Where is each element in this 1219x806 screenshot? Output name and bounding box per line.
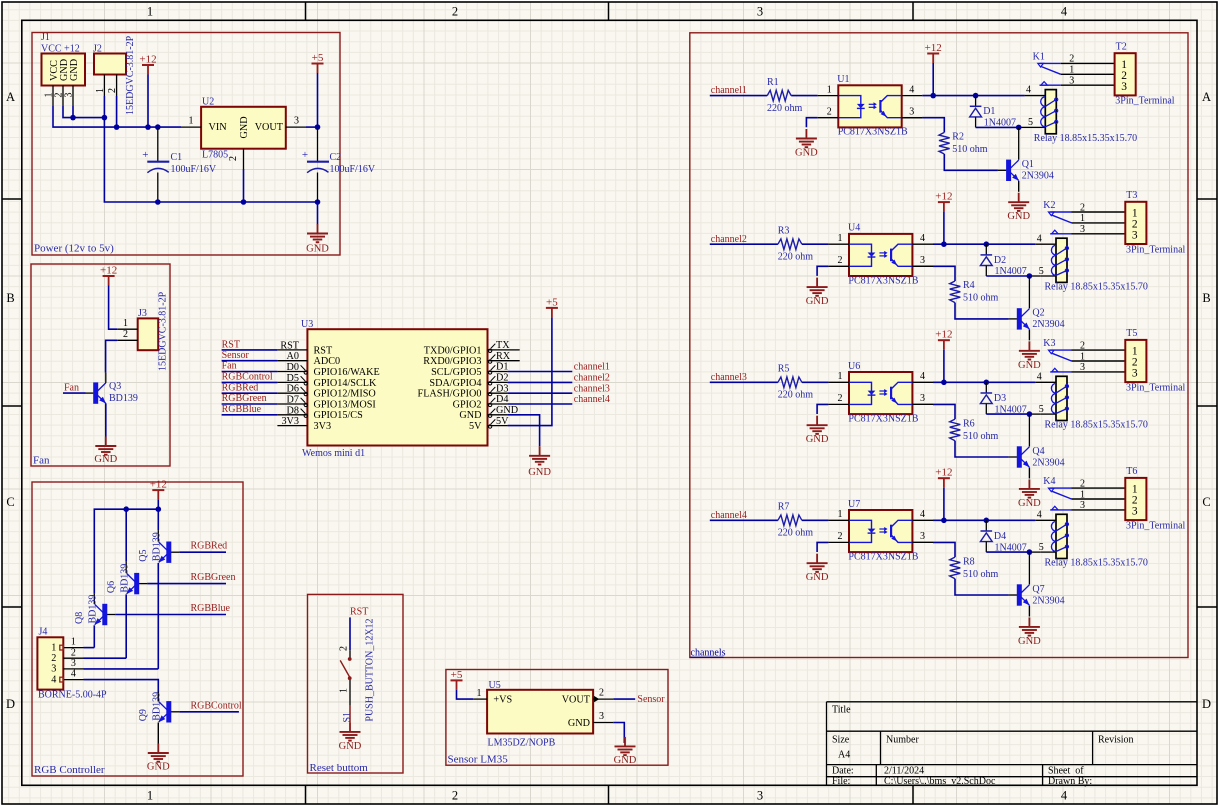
svg-text:R2: R2: [952, 132, 964, 143]
optocoupler U7 PC817X3NSZ1B: [828, 499, 933, 563]
svg-text:D1: D1: [496, 362, 508, 373]
svg-text:Q2: Q2: [1032, 308, 1044, 319]
svg-text:3: 3: [1069, 76, 1074, 87]
svg-text:D6: D6: [287, 384, 299, 395]
relay K1 coil: [1026, 85, 1137, 144]
svg-text:C1: C1: [171, 152, 183, 163]
wire Q3 emitter to ground: [105, 403, 107, 436]
junction +12 node (channel 4): [941, 518, 989, 524]
wire D4 to relay pin5: [986, 551, 1056, 553]
wire J4 pin2: [84, 657, 127, 659]
svg-text:Drawn By:: Drawn By:: [1048, 776, 1092, 787]
svg-text:+12: +12: [100, 265, 117, 277]
ground (fan section): [94, 437, 117, 466]
svg-text:1: 1: [827, 84, 832, 95]
wire +12 stem (channel 2): [943, 212, 945, 245]
transistor Q1 2N3904: [998, 127, 1054, 181]
sheet region: Power (12v to 5v): [32, 33, 340, 256]
wire +12 stem (channel 1): [932, 63, 934, 96]
svg-text:U4: U4: [848, 223, 860, 234]
capacitor C2 100uF/16V: [302, 127, 376, 202]
svg-text:BD139: BD139: [120, 564, 131, 593]
svg-text:S1: S1: [342, 712, 353, 723]
svg-text:A: A: [6, 90, 15, 104]
svg-text:1: 1: [147, 789, 153, 803]
svg-text:SDA/GPIO4: SDA/GPIO4: [429, 378, 481, 389]
junction VOUT node: [315, 124, 321, 130]
wire U6 pin4 to relay K3 coil: [933, 381, 1056, 383]
svg-text:RGBBlue: RGBBlue: [222, 404, 262, 415]
svg-text:4: 4: [1037, 233, 1042, 244]
svg-text:3: 3: [920, 531, 925, 542]
net label RGBRed: [179, 541, 227, 553]
svg-text:channel4: channel4: [711, 510, 747, 521]
svg-text:GND: GND: [614, 755, 637, 766]
svg-text:channel1: channel1: [711, 85, 747, 96]
svg-text:A0: A0: [287, 351, 299, 362]
svg-text:2: 2: [452, 789, 458, 803]
transistor Q2 2N3904: [1009, 276, 1065, 330]
relay K2 coil: [1037, 233, 1148, 292]
svg-text:B: B: [6, 291, 14, 305]
svg-text:SCL/GPIO5: SCL/GPIO5: [431, 367, 481, 378]
svg-text:4: 4: [71, 669, 76, 680]
wire D2 to relay pin5: [986, 275, 1056, 277]
ground (RGB section): [147, 744, 170, 773]
wire VOUT to +5: [306, 73, 318, 127]
svg-text:2: 2: [71, 647, 76, 658]
svg-text:channel2: channel2: [574, 373, 610, 384]
transistor Q4 2N3904: [1009, 414, 1065, 468]
connector J4 BORNE-5.00-4P: [37, 627, 107, 701]
resistor R6 510 ohm: [912, 404, 1008, 457]
svg-text:U1: U1: [837, 74, 849, 85]
svg-text:GND: GND: [806, 434, 829, 445]
net label RST (U3): [222, 339, 278, 350]
svg-text:3V3: 3V3: [281, 416, 299, 427]
wire C2 to ground symbol: [317, 202, 319, 225]
svg-text:BD139: BD139: [152, 532, 163, 561]
svg-text:GND: GND: [459, 410, 481, 421]
svg-text:1: 1: [95, 88, 106, 93]
svg-text:1: 1: [838, 509, 843, 520]
svg-text:GPIO12/MISO: GPIO12/MISO: [314, 389, 376, 400]
svg-text:J1: J1: [41, 32, 50, 43]
svg-text:2: 2: [339, 646, 350, 651]
svg-text:U7: U7: [848, 499, 860, 510]
svg-text:4: 4: [920, 509, 925, 520]
wire U2 GND pin to ground rail: [243, 169, 245, 202]
svg-text:2: 2: [452, 5, 458, 19]
wire D1 to relay pin5: [976, 126, 1046, 128]
svg-text:PUSH_BUTTON_12X12: PUSH_BUTTON_12X12: [364, 618, 375, 721]
net label channel1 (U3): [508, 362, 610, 373]
relay K3 coil: [1037, 371, 1148, 430]
svg-text:2N3904: 2N3904: [1022, 171, 1054, 182]
wire Q2 emitter to ground: [1028, 329, 1030, 340]
svg-text:Number: Number: [886, 735, 919, 746]
svg-text:C2: C2: [330, 152, 342, 163]
net label Fan: [63, 383, 86, 394]
svg-text:D8: D8: [287, 405, 299, 416]
svg-text:GND: GND: [795, 148, 818, 159]
net label RGBGreen (U3): [222, 393, 278, 404]
svg-text:3: 3: [51, 664, 56, 675]
svg-text:2: 2: [1069, 54, 1074, 65]
relay K2 contacts: [1043, 200, 1125, 235]
svg-text:D5: D5: [287, 373, 299, 384]
svg-text:2: 2: [107, 88, 118, 93]
connector J2: [93, 35, 136, 115]
net label channel3 (U3): [508, 383, 610, 394]
ground (U7): [806, 554, 829, 584]
svg-text:Fan: Fan: [222, 361, 237, 372]
ground (power section): [306, 224, 329, 255]
svg-text:Q4: Q4: [1032, 446, 1044, 457]
svg-text:510 ohm: 510 ohm: [963, 293, 999, 304]
svg-text:GND: GND: [1018, 636, 1041, 647]
svg-text:2N3904: 2N3904: [1032, 457, 1064, 468]
resistor R1 220 ohm: [767, 77, 803, 114]
svg-text:T3: T3: [1126, 190, 1137, 201]
net label channel2 (U3): [508, 373, 610, 384]
svg-text:1: 1: [147, 5, 153, 19]
svg-text:Relay 18.85x15.35x15.70: Relay 18.85x15.35x15.70: [1045, 282, 1148, 293]
svg-text:C: C: [6, 495, 14, 509]
svg-text:BORNE-5.00-4P: BORNE-5.00-4P: [38, 690, 107, 701]
svg-text:Revision: Revision: [1098, 735, 1134, 746]
svg-text:R3: R3: [778, 225, 790, 236]
svg-text:A4: A4: [838, 750, 850, 761]
svg-text:5V: 5V: [469, 421, 482, 432]
junction input rail: [114, 124, 161, 130]
svg-text:3Pin_Terminal: 3Pin_Terminal: [1126, 382, 1186, 393]
wire U1 pin4 to relay K1 coil: [922, 95, 1045, 97]
svg-text:220 ohm: 220 ohm: [778, 528, 814, 539]
svg-text:K2: K2: [1043, 200, 1055, 211]
svg-text:100uF/16V: 100uF/16V: [330, 164, 376, 175]
wire +5 to U5 +VS: [457, 690, 474, 699]
svg-text:RST: RST: [350, 607, 368, 618]
regulator U2 L7805: [181, 97, 306, 170]
svg-text:File:: File:: [832, 776, 850, 787]
svg-text:GND: GND: [1018, 498, 1041, 509]
junction relay pin5 / Q1 collector: [1016, 125, 1022, 131]
svg-text:K4: K4: [1043, 476, 1055, 487]
svg-text:3: 3: [1080, 224, 1085, 235]
relay K1 contacts: [1033, 51, 1115, 86]
ground (U1): [795, 129, 818, 159]
svg-text:3: 3: [920, 255, 925, 266]
wire J4 pin1: [84, 647, 95, 649]
svg-text:RXD0/GPIO3: RXD0/GPIO3: [423, 356, 481, 367]
svg-text:3: 3: [757, 5, 763, 19]
power +12 (power section): [139, 54, 156, 75]
net label RGBControl (U3): [222, 372, 278, 383]
svg-text:1: 1: [51, 642, 56, 653]
svg-text:100uF/16V: 100uF/16V: [171, 164, 217, 175]
ground (U4): [806, 278, 829, 308]
svg-text:15EDGVC-3.81-2P: 15EDGVC-3.81-2P: [158, 291, 169, 371]
svg-text:D3: D3: [994, 393, 1006, 404]
svg-text:3: 3: [64, 93, 75, 98]
ground (sensor section): [614, 737, 637, 766]
net label RGBBlue: [115, 603, 230, 615]
svg-text:R8: R8: [963, 556, 975, 567]
svg-text:GND: GND: [568, 718, 590, 729]
svg-text:L7805: L7805: [202, 150, 228, 161]
svg-text:3: 3: [71, 658, 76, 669]
wire D3 to relay pin5: [986, 413, 1056, 415]
wire U1 pin2 to ground: [806, 118, 817, 128]
svg-text:Sensor: Sensor: [637, 694, 665, 705]
terminal T3 3Pin_Terminal: [1125, 190, 1185, 255]
svg-text:220 ohm: 220 ohm: [778, 252, 814, 263]
wire S1 to ground: [349, 705, 351, 722]
svg-text:3: 3: [1132, 229, 1138, 241]
svg-text:D3: D3: [496, 383, 508, 394]
ground (U6): [806, 416, 829, 446]
svg-text:C: C: [1202, 495, 1210, 509]
svg-text:D: D: [1202, 697, 1211, 711]
power +12 (channel 3): [935, 329, 952, 350]
svg-text:R1: R1: [767, 77, 779, 88]
wire R7 to U7 pin1: [802, 519, 829, 521]
svg-text:BD139: BD139: [109, 393, 138, 404]
resistor R2 510 ohm: [902, 118, 998, 171]
wire R5 to U6 pin1: [802, 381, 829, 383]
svg-text:Title: Title: [832, 705, 851, 716]
svg-text:4: 4: [1061, 5, 1068, 19]
svg-text:GPIO14/SCLK: GPIO14/SCLK: [314, 378, 377, 389]
wire J4 pin3: [84, 668, 159, 670]
svg-text:TXD0/GPIO1: TXD0/GPIO1: [424, 345, 482, 356]
wire U6 pin2 to ground: [817, 404, 828, 414]
svg-text:U6: U6: [848, 361, 860, 372]
svg-text:J3: J3: [138, 308, 147, 319]
svg-text:D7: D7: [287, 395, 299, 406]
svg-text:Relay 18.85x15.35x15.70: Relay 18.85x15.35x15.70: [1045, 420, 1148, 431]
svg-text:channel4: channel4: [574, 394, 610, 405]
svg-text:+5: +5: [312, 52, 324, 64]
svg-text:5: 5: [1028, 117, 1033, 128]
svg-text:GND: GND: [306, 244, 329, 255]
svg-text:1: 1: [477, 688, 482, 699]
svg-text:+: +: [142, 149, 148, 161]
svg-text:1: 1: [1080, 489, 1085, 500]
svg-text:1: 1: [1080, 351, 1085, 362]
wire Q1 emitter to ground: [1018, 181, 1020, 192]
svg-text:J4: J4: [39, 627, 48, 638]
svg-text:Reset buttom: Reset buttom: [310, 762, 369, 774]
svg-text:R5: R5: [778, 364, 790, 375]
svg-text:2: 2: [838, 531, 843, 542]
transistor Q9 BD139: [138, 691, 179, 723]
net label RGBRed (U3): [222, 382, 278, 393]
junction ground rail: [155, 199, 320, 205]
net label channel2: [710, 234, 778, 245]
svg-text:4: 4: [1026, 85, 1031, 96]
svg-text:Relay 18.85x15.35x15.70: Relay 18.85x15.35x15.70: [1045, 558, 1148, 569]
svg-text:GND: GND: [806, 296, 829, 307]
svg-text:+12: +12: [935, 329, 952, 341]
svg-text:D0: D0: [287, 362, 299, 373]
wire +12 stem to input rail: [147, 75, 149, 128]
transistor Q7 2N3904: [1009, 552, 1065, 606]
diode D2 1N4007: [980, 244, 1026, 277]
svg-text:PC817X3NSZ1B: PC817X3NSZ1B: [848, 275, 918, 286]
svg-text:3: 3: [1132, 368, 1138, 380]
svg-text:BD139: BD139: [88, 595, 99, 624]
wire +12 to J3 pin 1: [109, 286, 118, 330]
sheet region: Fan: [31, 264, 170, 467]
relay K4 contacts: [1043, 476, 1125, 511]
svg-text:Size: Size: [832, 735, 850, 746]
svg-text:4: 4: [920, 233, 925, 244]
svg-text:4: 4: [1037, 371, 1042, 382]
svg-text:GND: GND: [1018, 360, 1041, 371]
power +12 (channel 1): [925, 42, 942, 63]
svg-text:4: 4: [1061, 789, 1068, 803]
svg-text:RGBRed: RGBRed: [191, 541, 228, 552]
net label channel4: [710, 510, 778, 521]
svg-text:5: 5: [1039, 266, 1044, 277]
resistor R4 510 ohm: [912, 266, 1008, 319]
svg-text:channels: channels: [691, 647, 726, 658]
net label RST (reset): [350, 607, 368, 651]
svg-text:2: 2: [599, 688, 604, 699]
svg-text:Fan: Fan: [33, 455, 50, 467]
svg-text:GPIO13/MOSI: GPIO13/MOSI: [314, 399, 377, 410]
resistor R3 220 ohm: [778, 225, 814, 262]
transistor Q3 BD139: [86, 373, 138, 404]
svg-text:3Pin_Terminal: 3Pin_Terminal: [1126, 520, 1186, 531]
svg-text:5V: 5V: [496, 416, 509, 427]
wire +12 rail (RGB): [94, 500, 158, 594]
svg-text:K1: K1: [1033, 51, 1045, 62]
junction +12 node (channel 1): [930, 93, 978, 99]
wire U4 pin4 to relay K2 coil: [933, 243, 1056, 245]
svg-text:D1: D1: [983, 106, 995, 117]
wire +12 stem (channel 3): [943, 350, 945, 383]
svg-text:3: 3: [1080, 362, 1085, 373]
svg-text:1: 1: [339, 688, 350, 693]
svg-text:channel3: channel3: [574, 383, 610, 394]
svg-text:3: 3: [1080, 500, 1085, 511]
net label channel3: [710, 372, 778, 383]
svg-text:4: 4: [1037, 509, 1042, 520]
svg-text:RST: RST: [280, 340, 299, 351]
svg-text:RGBGreen: RGBGreen: [191, 572, 236, 583]
wire +12 stem (channel 4): [943, 488, 945, 521]
svg-text:2N3904: 2N3904: [1032, 319, 1064, 330]
svg-text:PC817X3NSZ1B: PC817X3NSZ1B: [848, 551, 918, 562]
svg-text:3V3: 3V3: [314, 421, 332, 432]
svg-text:LM35DZ/NOPB: LM35DZ/NOPB: [488, 738, 556, 749]
power +5 (power section): [312, 52, 324, 73]
svg-text:+12: +12: [935, 467, 952, 479]
svg-text:R6: R6: [963, 418, 975, 429]
svg-text:RGBBlue: RGBBlue: [191, 603, 231, 614]
power +12 (fan section): [100, 265, 117, 286]
svg-text:15EDGVC-3.81-2P: 15EDGVC-3.81-2P: [125, 35, 136, 115]
net label RGBGreen: [147, 572, 235, 584]
svg-text:5: 5: [1039, 404, 1044, 415]
svg-text:Fan: Fan: [64, 383, 79, 394]
svg-text:channel2: channel2: [711, 234, 747, 245]
svg-text:GPIO15/CS: GPIO15/CS: [314, 410, 364, 421]
power +5 (U3): [546, 296, 558, 317]
transistor Q6 BD139: [106, 562, 147, 595]
svg-text:Sensor LM35: Sensor LM35: [448, 754, 509, 766]
net label RGBControl: [179, 701, 242, 712]
optocoupler U4 PC817X3NSZ1B: [828, 223, 933, 287]
wire ground rail: [158, 201, 318, 203]
svg-text:3: 3: [1132, 506, 1138, 518]
power +12 (RGB section): [150, 479, 167, 500]
connector J1: [41, 32, 85, 106]
svg-text:VOUT: VOUT: [255, 122, 284, 133]
svg-text:510 ohm: 510 ohm: [952, 144, 988, 155]
terminal T5 3Pin_Terminal: [1125, 328, 1185, 393]
svg-text:2: 2: [123, 329, 128, 340]
svg-text:3: 3: [1121, 81, 1127, 93]
svg-text:Q1: Q1: [1022, 159, 1034, 170]
svg-text:+VS: +VS: [493, 695, 512, 706]
svg-text:RST: RST: [222, 339, 240, 350]
svg-text:2N3904: 2N3904: [1032, 595, 1064, 606]
power +12 (channel 2): [935, 191, 952, 212]
junction +12 node (channel 3): [941, 380, 989, 386]
svg-text:ADC0: ADC0: [314, 356, 341, 367]
svg-text:4: 4: [51, 674, 56, 685]
svg-text:D2: D2: [994, 255, 1006, 266]
transistor Q8 BD139: [74, 594, 115, 626]
ground (reset section): [339, 722, 362, 752]
junction RGB rail: [123, 506, 161, 512]
svg-text:RGBRed: RGBRed: [222, 382, 259, 393]
svg-text:RGBGreen: RGBGreen: [222, 393, 267, 404]
svg-text:D: D: [6, 697, 15, 711]
svg-text:VIN: VIN: [209, 122, 228, 133]
svg-text:3Pin_Terminal: 3Pin_Terminal: [1115, 96, 1175, 107]
terminal T2 3Pin_Terminal: [1115, 41, 1175, 106]
svg-text:GND: GND: [239, 116, 250, 138]
wire U3 5V to +5: [508, 317, 552, 425]
svg-text:220 ohm: 220 ohm: [778, 390, 814, 401]
svg-text:Q9: Q9: [138, 709, 149, 721]
svg-text:+12: +12: [935, 191, 952, 203]
svg-text:Power (12v to 5v): Power (12v to 5v): [34, 243, 114, 255]
svg-text:D4: D4: [496, 394, 508, 405]
svg-text:GPIO16/WAKE: GPIO16/WAKE: [314, 367, 380, 378]
svg-text:T6: T6: [1126, 466, 1137, 477]
capacitor C1 100uF/16V: [142, 127, 217, 202]
sheet region: Sensor LM35: [446, 670, 668, 766]
svg-text:Q6: Q6: [106, 581, 117, 593]
wire U7 pin4 to relay K4 coil: [933, 519, 1056, 521]
svg-text:510 ohm: 510 ohm: [963, 431, 999, 442]
svg-text:1: 1: [71, 637, 76, 648]
wire U4 pin2 to ground: [817, 266, 828, 276]
svg-text:4: 4: [909, 84, 914, 95]
junction +12 node (channel 2): [941, 241, 989, 247]
svg-text:D4: D4: [994, 531, 1006, 542]
push button S1 PUSH_BUTTON_12X12: [339, 618, 376, 722]
ground (Q7): [1018, 617, 1041, 647]
svg-text:channel3: channel3: [711, 372, 747, 383]
svg-text:D2: D2: [496, 373, 508, 384]
